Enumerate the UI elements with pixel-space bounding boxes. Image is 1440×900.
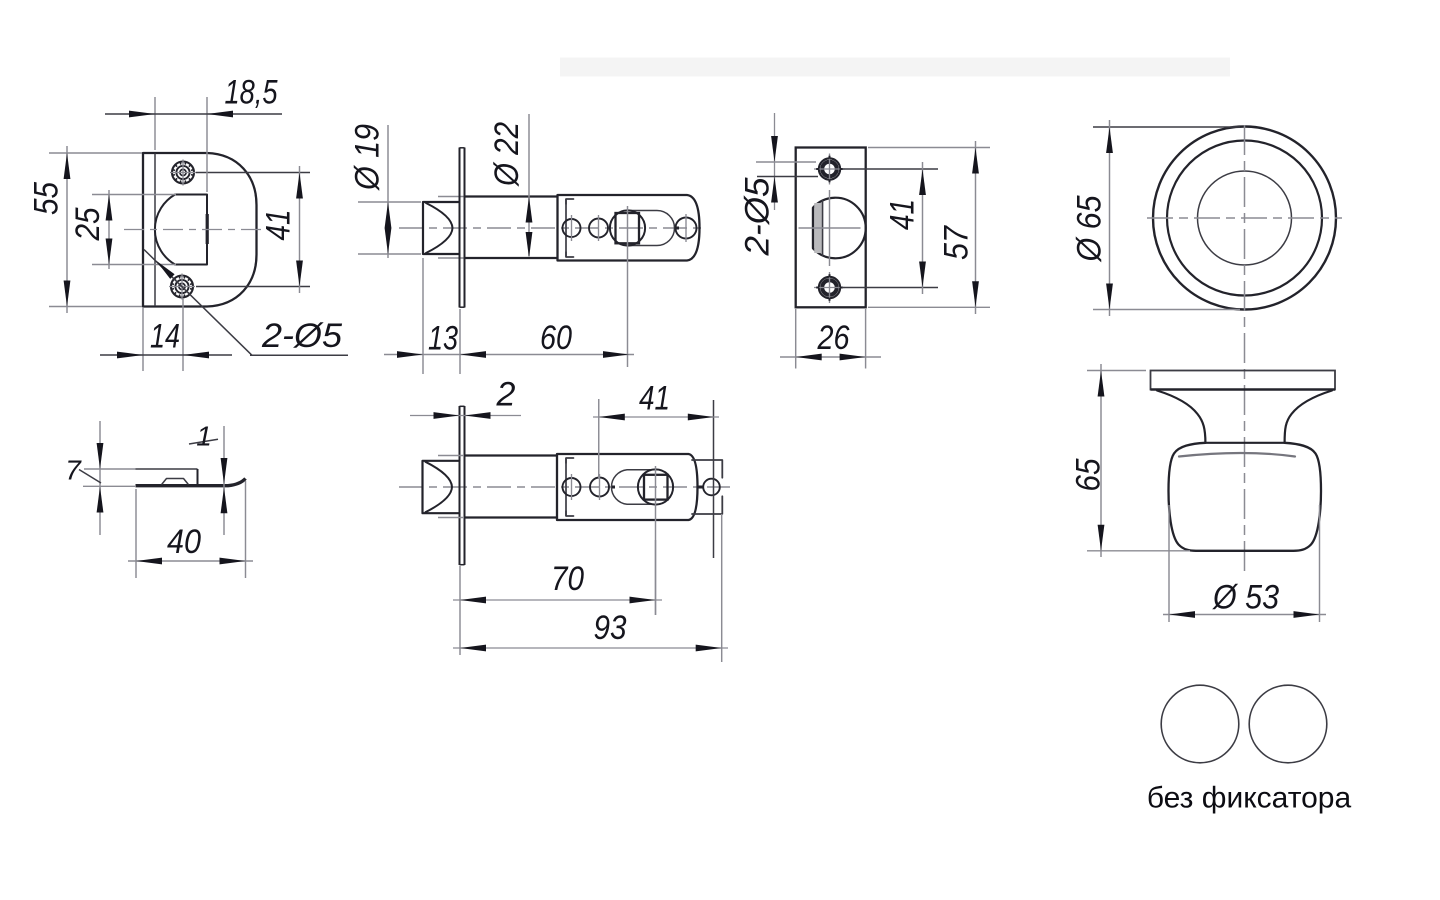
svg-text:2-Ø5: 2-Ø5	[739, 177, 777, 256]
svg-text:57: 57	[938, 225, 976, 260]
svg-text:65: 65	[1070, 458, 1108, 491]
svg-text:41: 41	[260, 210, 298, 241]
svg-text:41: 41	[639, 380, 670, 418]
svg-text:без фиксатора: без фиксатора	[1147, 782, 1352, 815]
svg-text:55: 55	[28, 182, 66, 215]
svg-text:70: 70	[551, 560, 584, 598]
svg-text:60: 60	[540, 319, 572, 357]
svg-text:1: 1	[196, 421, 212, 452]
svg-text:2: 2	[496, 376, 516, 414]
svg-text:93: 93	[594, 609, 627, 647]
svg-text:Ø 19: Ø 19	[349, 124, 387, 191]
svg-text:14: 14	[150, 318, 180, 356]
svg-text:2-Ø5: 2-Ø5	[261, 317, 342, 355]
svg-text:Ø 65: Ø 65	[1071, 195, 1109, 262]
svg-text:7: 7	[65, 455, 82, 486]
svg-text:25: 25	[69, 207, 107, 241]
svg-text:26: 26	[817, 319, 850, 357]
svg-text:Ø 22: Ø 22	[488, 122, 526, 187]
svg-text:40: 40	[167, 523, 201, 561]
svg-text:13: 13	[428, 320, 458, 358]
svg-text:18,5: 18,5	[225, 74, 278, 112]
svg-text:Ø 53: Ø 53	[1212, 579, 1279, 617]
svg-text:41: 41	[884, 199, 922, 230]
